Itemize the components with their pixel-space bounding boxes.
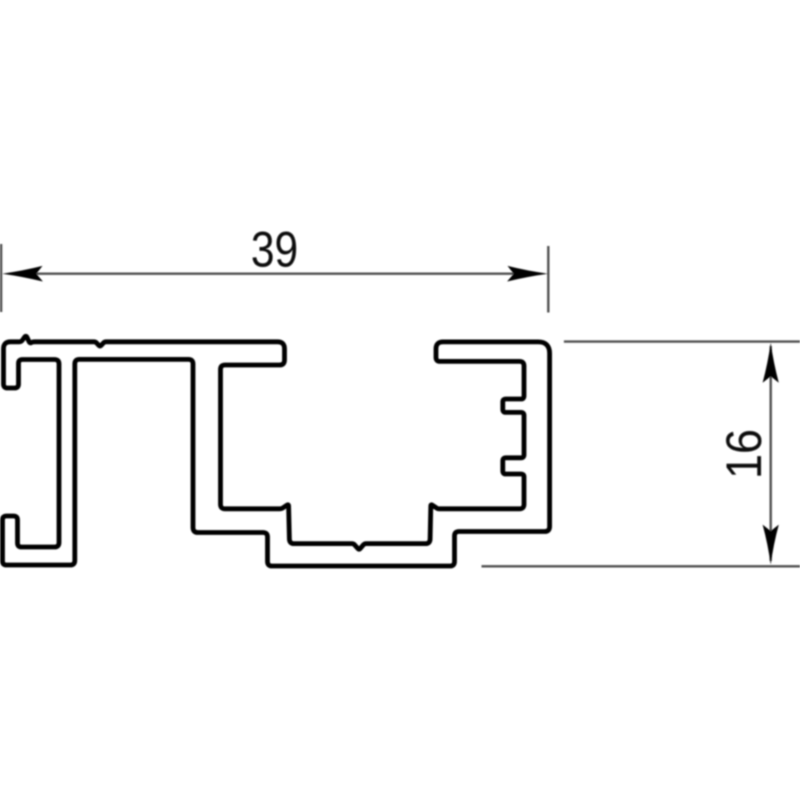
extension line right of dim 39	[547, 246, 549, 313]
arrowhead top of dim 16	[763, 343, 779, 383]
arrowhead bottom of dim 16	[763, 525, 779, 565]
dimension line 16	[770, 346, 772, 561]
svg-text:39: 39	[251, 221, 298, 277]
arrowhead right of dim 39	[507, 266, 548, 282]
svg-text:16: 16	[717, 429, 773, 479]
aluminium profile cross-section outline	[3, 336, 550, 566]
extension line bottom of dim 16	[482, 565, 800, 567]
dimension line 39	[30, 273, 518, 275]
dimension and extension lines (gray)	[1, 244, 800, 566]
extension line left of dim 39	[0, 244, 2, 312]
extension line top of dim 16	[564, 340, 800, 342]
arrowhead left of dim 39	[2, 266, 43, 282]
